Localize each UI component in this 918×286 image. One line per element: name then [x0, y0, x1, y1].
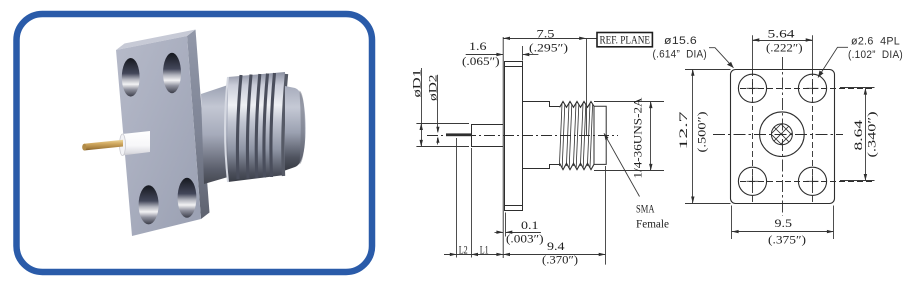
leader phi2.6: [818, 47, 848, 77]
3D photo: hole top-left: [122, 58, 140, 97]
svg-text:øD2: øD2: [428, 74, 440, 101]
side view: center axis line: [427, 135, 618, 137]
svg-text:0.1: 0.1: [521, 220, 539, 232]
3D photo: collar between flange and barrel: [201, 85, 228, 184]
leader phi15.6: [709, 48, 734, 68]
arrow d1 bottom: [420, 140, 423, 147]
side view: thread flank hatch lines: [559, 104, 592, 168]
arrow L1 right / 9.4 left: [496, 253, 503, 256]
arrow 8.64 bottom: [864, 174, 867, 181]
3D photo: insulator end face: [120, 134, 126, 156]
3D photo: end cap separator groove: [283, 74, 287, 176]
front view: mounting hole bottom-right: [798, 167, 826, 195]
arrow 12.7 top: [691, 69, 694, 76]
front view: mounting hole top-left: [738, 74, 766, 102]
3D photo: flange right side face: [187, 30, 210, 220]
photo frame: blue rounded border: [17, 14, 373, 272]
dimension phi-D1 extension lines: [416, 123, 469, 125]
side view: flange bottom chamfer line: [505, 205, 523, 207]
svg-text:(.295″): (.295″): [529, 42, 568, 54]
arrow 8.64 top: [864, 88, 867, 95]
arrow thread spec bottom: [649, 164, 652, 171]
svg-text:(.614” DIA): (.614” DIA): [653, 49, 708, 61]
front view: flange plate outline: [731, 70, 835, 204]
3D photo: center pin: [84, 140, 123, 151]
front view: vertical hole axis right: [812, 70, 814, 203]
3D photo: thread groove 2: [247, 75, 251, 179]
side view: insulator bushing: [472, 125, 504, 147]
arrow L2 left outside: [450, 253, 457, 256]
dimension 12.7 extension lines: [685, 69, 731, 71]
3D photo: thread groove 3: [256, 74, 260, 178]
bottom dimension line L2 L1 9.4: [444, 254, 606, 256]
dimension 7.5 line to REF plane: [503, 38, 597, 40]
dimension 0.1 tails: [495, 232, 504, 234]
dimension 12.7 line: [692, 70, 694, 204]
arrow L2 right outside: [471, 253, 478, 256]
bottom dimension extension L1: [471, 148, 473, 258]
3D photo: insulator bushing: [122, 131, 150, 156]
svg-text:(.222″): (.222″): [766, 43, 803, 55]
arrow thread spec top: [649, 101, 652, 108]
3D photo: hole bottom-left: [139, 185, 159, 224]
arrow 12.7 bottom: [691, 197, 694, 204]
dimension phi-D2 line: [437, 75, 439, 132]
svg-text:9.5: 9.5: [775, 218, 793, 230]
front view: body outer circle: [760, 112, 805, 157]
front view: hole center marks: [747, 82, 819, 187]
arrow 1.6 left: [496, 53, 503, 56]
side view: flange plate body: [505, 62, 523, 211]
side view: center pin: [446, 133, 471, 136]
arrow 9.5 left: [732, 230, 739, 233]
3D photo: pin end face: [82, 144, 86, 151]
svg-text:ø2.6 4PL: ø2.6 4PL: [851, 35, 900, 47]
dimension 5.64 line: [753, 40, 813, 42]
svg-text:5.64: 5.64: [768, 29, 795, 41]
svg-text:9.4: 9.4: [547, 241, 565, 253]
3D photo: end cap: [285, 86, 306, 171]
side view: end cap: [594, 106, 606, 164]
front view: horizontal hole axis bottom: [740, 181, 874, 183]
dimension 9.5 line: [732, 231, 834, 233]
thread spec extension lines: [594, 101, 664, 103]
3D photo: thread groove 4: [264, 74, 268, 178]
arrow leader 15.6: [727, 62, 734, 68]
svg-text:(.340″): (.340″): [867, 111, 879, 157]
svg-text:L2: L2: [459, 245, 468, 257]
svg-text:8.64: 8.64: [853, 120, 865, 151]
arrow 0.1 right: [506, 231, 513, 234]
front view: mounting hole top-right: [798, 74, 826, 102]
3D photo: flange top face: [116, 30, 196, 51]
3D photo: hole bottom-right: [178, 178, 197, 218]
dimension 1.6 line and tails: [466, 54, 504, 56]
arrow d1 top: [420, 123, 423, 130]
arrow 7.5 left: [503, 37, 510, 40]
arrow 7.5 right: [579, 37, 586, 40]
front view: horizontal centerline: [713, 134, 843, 136]
side view: flange boss face line: [502, 37, 504, 258]
svg-text:(.003″): (.003″): [506, 233, 544, 245]
svg-text:REF. PLANE: REF. PLANE: [600, 35, 651, 47]
arrow 0.1 left: [496, 231, 503, 234]
svg-text:12.7: 12.7: [678, 111, 690, 149]
dimension 9.5 extension lines: [731, 206, 733, 240]
arrow 9.5 right: [827, 230, 834, 233]
svg-text:1/4-36UNS-2A: 1/4-36UNS-2A: [633, 97, 645, 179]
dimension 8.64 line: [865, 88, 867, 181]
arrow 9.4 right: [599, 253, 606, 256]
svg-text:(.065″): (.065″): [462, 56, 500, 68]
arrow 5.64 right: [806, 38, 813, 41]
arrow d2 top: [436, 127, 439, 133]
side view: thread crest zigzag top: [560, 102, 594, 108]
3D photo: threaded barrel: [228, 72, 285, 182]
arrow d2 bottom: [436, 136, 439, 142]
svg-text:(.370″): (.370″): [542, 255, 578, 267]
arrow 5.64 left: [753, 38, 760, 41]
3D photo: thread groove 1: [237, 75, 241, 179]
svg-text:(.102” DIA): (.102” DIA): [848, 49, 903, 61]
svg-text:ø15.6: ø15.6: [664, 35, 697, 47]
side view: flange top chamfer line: [505, 66, 523, 68]
3D photo: hole top-right: [163, 53, 181, 93]
SMA female leader line: [604, 133, 640, 196]
bottom dimension extension L2: [456, 138, 458, 258]
front view: center contact circle: [771, 124, 792, 145]
svg-text:(.375″): (.375″): [768, 235, 806, 247]
bottom dimension extension right (end cap): [605, 166, 607, 265]
dimension 8.64 extension lines: [840, 87, 875, 89]
svg-text:SMA: SMA: [636, 204, 655, 216]
front view: center contact crosshatch: [756, 114, 806, 159]
dimension 5.64 extension lines: [752, 35, 754, 69]
thread spec dimension line: [650, 102, 652, 171]
arrow 1.6 right: [523, 53, 530, 56]
side view: body neck: [523, 102, 560, 169]
side view: thread crest zigzag bottom: [560, 163, 594, 169]
front view: vertical centerline: [782, 57, 784, 216]
dimension 0.1 right extension: [505, 213, 507, 237]
front view: horizontal hole axis top: [740, 88, 874, 90]
front view: vertical hole axis left: [752, 70, 754, 203]
svg-text:Female: Female: [636, 219, 669, 231]
svg-text:(.500″): (.500″): [697, 111, 709, 152]
svg-text:7.5: 7.5: [537, 28, 555, 40]
3D photo: thread groove 5: [271, 73, 275, 177]
REF PLANE box: [597, 33, 652, 47]
3D photo: barrel left rim: [225, 77, 228, 182]
svg-text:1.6: 1.6: [469, 41, 487, 53]
3D photo: end cap right shadow band: [300, 91, 305, 165]
3D photo: flange front face: [116, 36, 201, 236]
svg-text:L1: L1: [480, 245, 489, 257]
REF plane vertical line: [586, 39, 588, 136]
dimension phi-D1 line: [421, 68, 423, 147]
svg-text:øD1: øD1: [412, 69, 424, 98]
front view: mounting hole bottom-left: [738, 167, 766, 195]
dimension 1.6 extension right: [522, 46, 524, 61]
arrow SMA leader: [604, 133, 609, 140]
arrow leader 2.6: [818, 71, 824, 78]
